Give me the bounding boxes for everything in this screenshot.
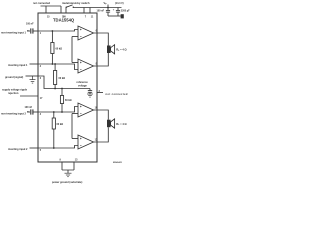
svg-text:100 nF: 100 nF bbox=[97, 10, 105, 13]
op-amp A3 bbox=[72, 103, 94, 117]
capacitor C3 100 nF decoupling bbox=[106, 8, 110, 17]
wire output 2 plus bbox=[94, 110, 109, 120]
svg-text:ground (signal): ground (signal) bbox=[5, 76, 23, 79]
wire ripple rejection pin bbox=[20, 95, 38, 97]
svg-text:voltage: voltage bbox=[78, 85, 87, 88]
wire signal ground bbox=[26, 75, 39, 77]
wire pin15 stub bbox=[45, 6, 47, 13]
svg-text:60 kΩ: 60 kΩ bbox=[59, 77, 66, 80]
wire power ground bus bbox=[62, 170, 74, 173]
wire pin11 supply stub bbox=[89, 8, 91, 14]
svg-text:inverting input 1: inverting input 1 bbox=[8, 64, 28, 67]
op-amp U1 block TDA1554Q outline bbox=[38, 13, 97, 162]
resistor R1 60k bbox=[51, 31, 54, 64]
arrowhead input 2 bbox=[27, 111, 30, 112]
wire inverting input 2 internal bbox=[38, 146, 78, 149]
wire inverting input 1 internal bbox=[38, 64, 78, 70]
ground chassis block top right bbox=[121, 14, 124, 18]
wire capacitor ground bus bbox=[108, 15, 121, 17]
wire output 1 plus bbox=[94, 33, 109, 46]
capacitor reference voltage bbox=[88, 89, 92, 95]
svg-text:not connected: not connected bbox=[106, 93, 128, 96]
wire feedback tie A3-A4 bbox=[71, 114, 73, 139]
op-amp A1 bbox=[72, 26, 94, 40]
loudspeaker LS1 bbox=[107, 45, 115, 54]
svg-text:not connected: not connected bbox=[33, 2, 51, 5]
ground signal symbol bbox=[30, 76, 36, 83]
wire inverting input 1 bbox=[30, 63, 39, 65]
ground power symbol bbox=[65, 173, 72, 177]
wire pin7 supply stub bbox=[83, 8, 85, 14]
wire power ground pin 13 stub bbox=[73, 162, 75, 170]
wire non-inv input 2 internal bbox=[38, 107, 78, 113]
svg-text:power ground (substrate): power ground (substrate) bbox=[52, 181, 82, 184]
svg-text:RL = 4 Ω: RL = 4 Ω bbox=[116, 122, 126, 126]
svg-text:60 kΩ: 60 kΩ bbox=[65, 99, 72, 102]
svg-text:RL = 4 Ω: RL = 4 Ω bbox=[116, 48, 126, 52]
wire non-inv input 1 internal bbox=[38, 30, 78, 32]
resistor R4 60k bbox=[52, 112, 55, 148]
resistor R2 60k bbox=[54, 64, 57, 89]
svg-text:inverting input 2: inverting input 2 bbox=[8, 148, 28, 151]
wire pin14 stub bbox=[65, 7, 67, 13]
arrowhead input 1 bbox=[27, 30, 30, 31]
loudspeaker LS2 bbox=[107, 119, 115, 128]
svg-text:100 nF: 100 nF bbox=[25, 106, 33, 109]
wire supply rail bbox=[73, 7, 121, 9]
svg-text:rejection: rejection bbox=[8, 92, 19, 95]
svg-text:60 kΩ: 60 kΩ bbox=[56, 48, 63, 51]
op-amp A2 bbox=[72, 59, 94, 73]
svg-text:non-inverting input 1: non-inverting input 1 bbox=[1, 31, 26, 34]
svg-text:100 nF: 100 nF bbox=[26, 23, 34, 26]
svg-text:(14.4 V): (14.4 V) bbox=[115, 2, 124, 5]
wire output 1 minus bbox=[94, 53, 109, 66]
ground reference symbol bbox=[87, 94, 93, 97]
wire not-connected tie line bbox=[41, 5, 62, 7]
svg-text:MGG421: MGG421 bbox=[113, 161, 123, 164]
switch S1 bbox=[66, 5, 74, 8]
wire pin16 stub bbox=[60, 6, 62, 13]
svg-text:mute/stand-by switch: mute/stand-by switch bbox=[62, 1, 90, 5]
wire output 2 minus bbox=[94, 127, 109, 142]
wire power ground pin 9 stub bbox=[61, 162, 63, 170]
op-amp A4 bbox=[72, 135, 94, 149]
wire signal ground internal bbox=[38, 76, 90, 89]
svg-text:2200 µF: 2200 µF bbox=[121, 10, 130, 13]
wire reference voltage pin stub bbox=[97, 92, 103, 94]
capacitor C4 2200 uF decoupling bbox=[116, 8, 120, 17]
svg-text:60 kΩ: 60 kΩ bbox=[57, 123, 64, 126]
resistor R3 60k bbox=[60, 89, 63, 113]
wire inverting input 2 bbox=[30, 147, 39, 149]
op-amp polarity marks bbox=[80, 29, 82, 146]
svg-text:non-inverting input 2: non-inverting input 2 bbox=[1, 112, 26, 115]
wire feedback tie A1-A2 bbox=[71, 37, 73, 63]
